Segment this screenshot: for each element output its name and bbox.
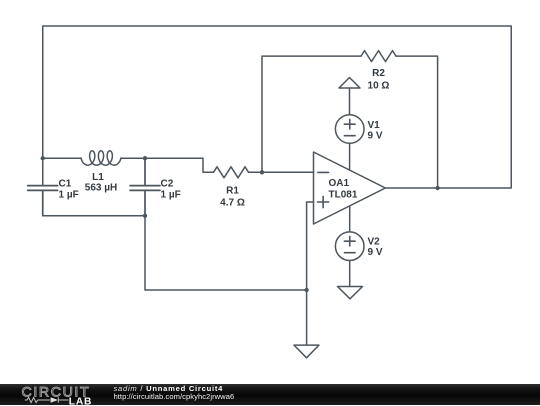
svg-text:TL081: TL081: [329, 190, 358, 201]
svg-text:10 Ω: 10 Ω: [368, 80, 390, 91]
footer logo CIRCUITLAB: [0, 384, 110, 406]
op-amp plus sign: [318, 196, 329, 207]
capacitor C2: [130, 158, 160, 216]
op-amp OA1: [314, 152, 386, 224]
svg-text:C2: C2: [161, 179, 174, 190]
svg-text:V2: V2: [368, 237, 381, 248]
node dot feedback / minus input: [260, 170, 264, 174]
svg-text:L1: L1: [92, 172, 104, 183]
footer bar: [0, 384, 540, 405]
label OA1: [329, 178, 358, 200]
wire outer top: [43, 26, 512, 188]
ground G1: [294, 345, 319, 358]
svg-text:LAB: LAB: [69, 396, 92, 405]
svg-text:1 µF: 1 µF: [161, 190, 181, 201]
svg-text:C1: C1: [59, 179, 72, 190]
label C1: [59, 179, 79, 201]
wire V2 to ground: [349, 261, 351, 287]
node dot C2 bottom: [143, 214, 147, 218]
node dot left rail LC top: [41, 156, 45, 160]
source V2: [335, 232, 364, 261]
svg-text:563 µH: 563 µH: [85, 183, 117, 194]
wire op-amp V- to V2: [349, 206, 351, 232]
label R2: [368, 68, 390, 91]
capacitor C1: [28, 186, 58, 216]
resistor R2: [361, 51, 396, 62]
wire arrow to V1: [349, 88, 351, 115]
wire ground stem: [306, 290, 308, 345]
wire LC top rail: [43, 157, 81, 159]
svg-text:4.7 Ω: 4.7 Ω: [220, 198, 245, 209]
wire L1 to C2 to R1: [121, 158, 214, 172]
source V1: [335, 115, 364, 144]
label V1: [368, 120, 383, 142]
svg-text:V1: V1: [368, 120, 381, 131]
label V2: [368, 237, 383, 259]
node dot C2 top: [143, 156, 147, 160]
wire plus input stub: [307, 202, 314, 290]
node dot output: [435, 186, 439, 190]
label L1: [85, 172, 117, 194]
svg-text:1 µF: 1 µF: [59, 190, 79, 201]
svg-text:9 V: 9 V: [368, 247, 383, 258]
wire R2 to output: [396, 56, 438, 188]
svg-text:R2: R2: [372, 68, 385, 79]
svg-text:R1: R1: [226, 185, 239, 196]
power flag arrow: [339, 78, 360, 89]
label C2: [161, 179, 181, 201]
svg-text:OA1: OA1: [329, 178, 350, 189]
wire R1 to op-amp minus input: [249, 171, 314, 173]
inductor L1: [81, 151, 121, 165]
wire V1 to op-amp V+: [349, 143, 351, 170]
footer title: [114, 384, 224, 393]
label R1: [220, 185, 245, 208]
wire feedback vertical: [262, 56, 361, 172]
wire C2 bottom to ground node: [145, 216, 307, 290]
svg-text:9 V: 9 V: [368, 131, 383, 142]
wire bottom rail: [43, 215, 145, 217]
op-amp minus sign: [318, 171, 329, 173]
resistor R1: [214, 167, 249, 178]
ground G2: [338, 287, 363, 299]
node dot ground junction: [304, 288, 308, 292]
